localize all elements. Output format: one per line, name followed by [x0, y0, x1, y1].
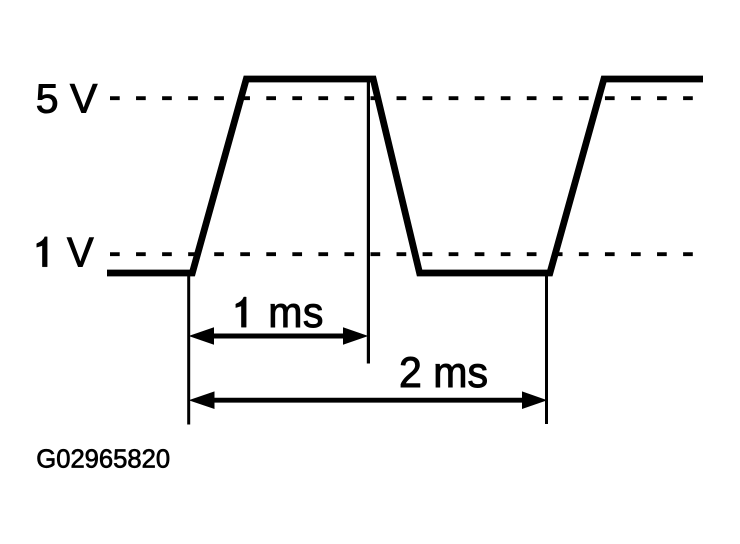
- 5V dashed reference line: [110, 96, 693, 100]
- extension line at first rising edge (t=0): [187, 273, 190, 425]
- waveform trace: [107, 79, 703, 273]
- 1 ms dimension arrow shaft: [208, 334, 350, 339]
- svg-text:5 V: 5 V: [36, 75, 98, 121]
- svg-text:V: V: [67, 229, 94, 276]
- label 1 ms : digit 1 drawn as arial-style path: [236, 297, 246, 327]
- 1V dashed reference line: [110, 252, 693, 256]
- 2 ms left arrowhead: [189, 391, 215, 409]
- 1 ms right arrowhead: [343, 327, 368, 345]
- svg-text:G02965820: G02965820: [36, 446, 170, 474]
- extension line at second rising edge (t=2ms): [545, 273, 548, 424]
- svg-text:ms: ms: [268, 288, 324, 336]
- label 1 V : digit 1 drawn as arial-style path: [37, 237, 48, 267]
- 1 ms left arrowhead: [189, 327, 214, 345]
- svg-text:2 ms: 2 ms: [399, 348, 488, 396]
- 2 ms dimension arrow shaft: [208, 398, 530, 403]
- extension line at falling edge (t=1ms): [367, 81, 370, 364]
- 2 ms right arrowhead: [522, 391, 547, 409]
